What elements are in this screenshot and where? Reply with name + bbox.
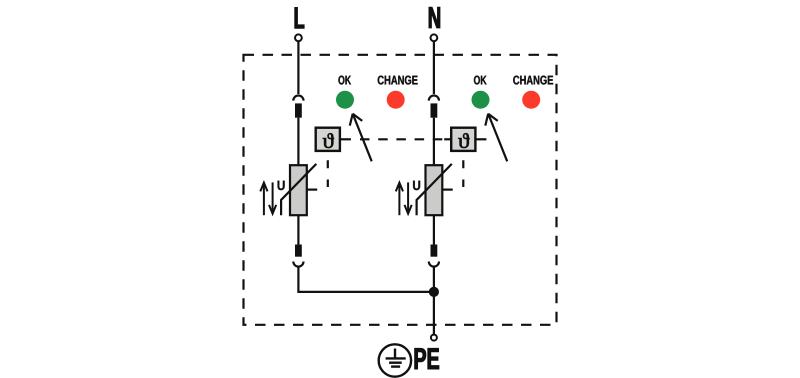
indicator arrow 2 [485,114,507,162]
plug contact arc bottom 2 [429,262,439,267]
varistor RV2 body [426,165,443,215]
node L label [295,8,304,29]
varistor RV2 diagonal [417,164,452,215]
linkage stub into box 2 [444,138,451,140]
node PE label [415,348,439,369]
node N label [429,7,440,28]
wire to varistor 2 [433,118,435,166]
wire below varistor 2 [433,215,435,244]
voltage arrow up 1 [260,183,267,216]
theta glyph 1 [323,133,334,148]
varistor RV1 diagonal [281,164,316,215]
label CHANGE 1 [378,76,418,85]
label U 2 [413,181,420,190]
disconnector element bottom 2 [431,245,438,257]
varistor RV2 stub right [442,189,452,191]
wire to varistor 1 [297,118,299,166]
plug contact arc top 2 [429,95,439,100]
thermal disconnect box 2 [451,128,475,151]
dashed linkage horizontal [351,138,444,140]
voltage arrow down 2 [405,182,412,213]
wire L bottom to bus [298,267,434,292]
label OK 2 [474,76,487,85]
wire below varistor 1 [297,215,299,244]
label CHANGE 2 [513,76,553,85]
linkage stub from box 2 [475,138,486,140]
earth symbol circle [379,344,411,376]
disconnector element top 2 [431,103,438,117]
dashed linkage vertical 2 [462,152,464,187]
wire top 1 [297,42,299,95]
LED red 1 [387,91,405,109]
disconnector element bottom 1 [295,245,302,257]
label OK 1 [338,76,351,85]
LED green 1 [336,91,354,109]
thermal disconnect box 1 [316,128,340,151]
indicator arrow 1 [350,114,372,162]
linkage stub from box 1 [340,138,351,140]
disconnector element top 1 [295,103,302,117]
voltage arrow up 2 [396,183,403,216]
voltage arrow down 1 [269,182,276,213]
PE terminal circle [431,335,437,341]
terminal L [295,34,302,41]
label U 1 [278,181,285,190]
plug contact arc bottom 1 [293,262,303,267]
LED red 2 [522,91,540,109]
varistor RV1 body [290,165,307,215]
plug contact arc top 1 [293,95,303,100]
junction dot [429,287,439,297]
theta glyph 2 [458,133,469,148]
terminal N [431,34,438,41]
LED green 2 [472,91,490,109]
varistor RV1 stub right [307,189,317,191]
earth symbol strokes [386,349,406,367]
enclosure dashed box [244,55,557,325]
wire N bottom to PE terminal [433,267,435,334]
wire top 2 [433,42,435,95]
dashed linkage vertical 1 [327,152,329,187]
